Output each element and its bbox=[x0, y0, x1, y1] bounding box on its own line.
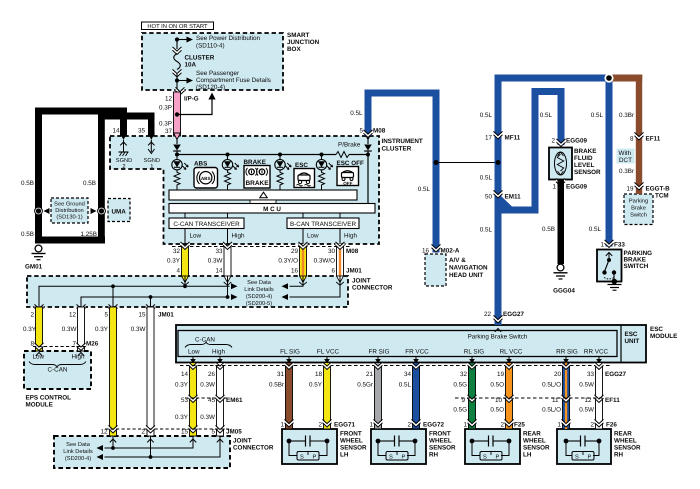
svg-text:30: 30 bbox=[328, 248, 336, 255]
svg-text:20: 20 bbox=[554, 371, 562, 378]
svg-text:(SD200-5): (SD200-5) bbox=[246, 300, 272, 307]
svg-text:10A: 10A bbox=[185, 62, 197, 69]
svg-text:P: P bbox=[402, 455, 406, 461]
svg-text:High: High bbox=[344, 233, 357, 240]
svg-text:0.3P: 0.3P bbox=[159, 121, 172, 128]
svg-text:1: 1 bbox=[552, 184, 556, 191]
svg-text:JUNCTION: JUNCTION bbox=[287, 39, 320, 46]
svg-text:EPS CONTROL: EPS CONTROL bbox=[26, 395, 72, 402]
svg-text:EGG09: EGG09 bbox=[566, 184, 587, 191]
JM01 internal C-CAN High bus bbox=[81, 276, 238, 307]
cluster pin 14 SGND2 bbox=[116, 133, 132, 170]
svg-text:0.5O: 0.5O bbox=[490, 382, 504, 389]
ESC warning LED bbox=[275, 155, 291, 191]
transceiver output stubs and Low/High labels bbox=[185, 229, 357, 245]
TCM parking brake switch box bbox=[624, 193, 669, 225]
JM01 internal B-CAN High branch bbox=[282, 276, 341, 300]
svg-text:INSTRUMENT: INSTRUMENT bbox=[382, 138, 423, 145]
svg-text:14: 14 bbox=[112, 128, 120, 135]
svg-text:Brake: Brake bbox=[631, 205, 646, 212]
junction node top right bbox=[604, 73, 613, 82]
svg-text:BOX: BOX bbox=[287, 46, 301, 53]
svg-text:0.3P: 0.3P bbox=[159, 105, 172, 112]
brake fluid level sensor box EGG09 bbox=[549, 148, 601, 180]
svg-text:0.5Y: 0.5Y bbox=[309, 382, 323, 389]
svg-text:See Data: See Data bbox=[247, 280, 272, 286]
BRAKE warning LED bbox=[222, 155, 238, 191]
svg-text:HOT IN ON OR START: HOT IN ON OR START bbox=[147, 23, 208, 30]
svg-text:34: 34 bbox=[404, 371, 412, 378]
svg-text:OFF: OFF bbox=[343, 181, 352, 186]
svg-text:P: P bbox=[496, 455, 500, 461]
svg-text:5: 5 bbox=[211, 429, 215, 436]
wire 0.3W/O B-CAN High cluster to JM01 pin 6 bbox=[314, 242, 345, 285]
svg-text:0.5B: 0.5B bbox=[542, 226, 555, 233]
svg-text:2: 2 bbox=[407, 422, 411, 429]
UMA connector box bbox=[108, 199, 130, 222]
svg-text:0.5L: 0.5L bbox=[480, 112, 493, 119]
ESC OFF indicator icon bbox=[337, 160, 364, 186]
svg-text:0.3W: 0.3W bbox=[200, 414, 215, 421]
svg-text:0.3Y: 0.3Y bbox=[95, 326, 109, 333]
wire 0.3W JM01 pin 15 to JM05 pin 2 bbox=[131, 304, 155, 442]
svg-text:GM01: GM01 bbox=[25, 264, 43, 271]
svg-text:12: 12 bbox=[165, 96, 173, 103]
svg-text:M26: M26 bbox=[86, 341, 99, 348]
svg-text:2: 2 bbox=[590, 422, 594, 429]
svg-text:EF11: EF11 bbox=[605, 397, 620, 404]
svg-text:BRAKE: BRAKE bbox=[245, 180, 269, 187]
svg-text:0.5L: 0.5L bbox=[589, 226, 602, 233]
svg-text:EGGT-B: EGGT-B bbox=[646, 186, 671, 193]
svg-text:SENSOR: SENSOR bbox=[429, 445, 456, 452]
svg-text:HEAD UNIT: HEAD UNIT bbox=[449, 272, 483, 279]
connector EGG27 dashed line under ESC unit bbox=[180, 366, 626, 379]
ESC unit pin name labels bbox=[280, 349, 608, 356]
svg-text:SENSOR: SENSOR bbox=[340, 445, 367, 452]
svg-text:MODULE: MODULE bbox=[26, 402, 53, 409]
connector EGG72 label bbox=[423, 422, 444, 429]
svg-text:CONNECTOR: CONNECTOR bbox=[352, 285, 393, 292]
svg-text:UMA: UMA bbox=[112, 209, 127, 216]
svg-text:M02-A: M02-A bbox=[441, 248, 460, 255]
svg-text:FR VCC: FR VCC bbox=[405, 349, 429, 356]
svg-text:ABS: ABS bbox=[194, 161, 207, 168]
front wheel sensor RH box bbox=[371, 429, 456, 464]
svg-text:12: 12 bbox=[69, 312, 77, 319]
instrument cluster label bbox=[382, 138, 423, 153]
svg-text:2: 2 bbox=[141, 429, 145, 436]
rear wheel sensor RH internals bbox=[564, 436, 602, 461]
svg-text:5: 5 bbox=[359, 128, 363, 135]
svg-text:Low: Low bbox=[188, 349, 200, 356]
with DCT note bbox=[617, 149, 635, 165]
ground GGG04 bbox=[553, 264, 575, 294]
svg-text:0.5B: 0.5B bbox=[21, 180, 34, 187]
svg-text:EF11: EF11 bbox=[646, 136, 661, 143]
svg-text:32: 32 bbox=[460, 371, 468, 378]
svg-text:19: 19 bbox=[626, 186, 634, 193]
connector JM01 top label bbox=[346, 268, 362, 275]
joint connector JM01 box bbox=[27, 276, 393, 307]
rear wheel sensor RH box bbox=[557, 429, 641, 464]
svg-text:21: 21 bbox=[366, 371, 374, 378]
svg-text:Parking Brake Switch: Parking Brake Switch bbox=[468, 334, 528, 341]
ground wire 0.5B/1.25B cluster pin 35 to GM01 bbox=[35, 113, 155, 244]
cluster pin 35 SGND1 bbox=[144, 133, 160, 170]
thin crossover link between M02-A branch and MF11 branch bbox=[436, 162, 498, 164]
svg-text:0.3W: 0.3W bbox=[62, 326, 77, 333]
svg-text:1: 1 bbox=[463, 422, 467, 429]
wire 0.5B brake fluid level sensor EGG09 pin 1 to ground bbox=[542, 178, 587, 264]
svg-text:S: S bbox=[389, 455, 393, 461]
svg-text:MF11: MF11 bbox=[505, 135, 521, 142]
svg-text:37: 37 bbox=[165, 128, 173, 135]
svg-text:B-CAN TRANSCEIVER: B-CAN TRANSCEIVER bbox=[290, 221, 356, 228]
front wheel sensor LH internals bbox=[287, 436, 330, 461]
wire 0.5L FR VCC to EGG72 pin 2 bbox=[399, 362, 421, 429]
joint connector JM05 box (data link) bbox=[54, 436, 274, 468]
svg-text:C-CAN TRANSCEIVER: C-CAN TRANSCEIVER bbox=[173, 221, 240, 228]
wire 0.5L vertical MF11/EM11 line to ESC pin 22 bbox=[480, 75, 525, 326]
wire 0.3Y ESC C-CAN Low to JM05 pin 15 via EM61 bbox=[175, 362, 197, 443]
wire 0.3Y C-CAN Low cluster to JM01 pin 4 bbox=[167, 242, 189, 285]
svg-text:31: 31 bbox=[277, 371, 285, 378]
rear wheel sensor LH internals bbox=[470, 436, 512, 461]
svg-text:1: 1 bbox=[150, 164, 153, 170]
svg-text:0.5B: 0.5B bbox=[21, 231, 34, 238]
wire 0.5Gr FR SIG to EGG72 pin 1 bbox=[357, 362, 382, 429]
svg-text:0.3W: 0.3W bbox=[131, 326, 146, 333]
svg-text:0.5W: 0.5W bbox=[579, 407, 594, 414]
A/V navigation head unit box bbox=[425, 254, 488, 286]
svg-text:6: 6 bbox=[331, 268, 335, 275]
svg-text:Parking: Parking bbox=[629, 198, 648, 205]
connector F26 label bbox=[606, 422, 617, 429]
svg-text:CLUSTER: CLUSTER bbox=[185, 55, 215, 62]
svg-text:FL VCC: FL VCC bbox=[317, 349, 340, 356]
svg-text:33: 33 bbox=[587, 371, 595, 378]
ground wire 0.5B cluster pin 14 to GM01 bbox=[21, 108, 127, 244]
connector EGG71 label bbox=[334, 422, 355, 429]
svg-text:High: High bbox=[232, 233, 245, 240]
svg-text:REAR: REAR bbox=[614, 431, 632, 438]
wire 0.5W RR VCC to F26 pin 2 via EF11 bbox=[579, 362, 603, 429]
svg-text:F25: F25 bbox=[514, 422, 525, 429]
svg-text:See Ground: See Ground bbox=[54, 201, 85, 208]
svg-text:JM05: JM05 bbox=[226, 429, 242, 436]
svg-text:Compartment Fuse Details: Compartment Fuse Details bbox=[196, 77, 271, 84]
svg-text:S: S bbox=[300, 455, 304, 461]
svg-text:0.5G: 0.5G bbox=[453, 407, 467, 414]
svg-text:C-CAN: C-CAN bbox=[195, 337, 215, 344]
svg-text:WHEEL: WHEEL bbox=[429, 438, 452, 445]
svg-text:1.25B: 1.25B bbox=[81, 231, 97, 238]
svg-text:SWITCH: SWITCH bbox=[624, 263, 649, 270]
svg-text:0.5L: 0.5L bbox=[540, 112, 553, 119]
svg-text:F33: F33 bbox=[614, 242, 625, 249]
see passenger compartment fuse details reference arrow bbox=[175, 70, 271, 91]
wire I/P-G 0.3P from SJB to cluster pin 37 bbox=[159, 87, 199, 136]
svg-text:5: 5 bbox=[104, 312, 108, 319]
wire 0.5Y FL VCC to EGG71 pin 2 bbox=[309, 362, 331, 429]
svg-text:0.3Br: 0.3Br bbox=[619, 112, 634, 119]
svg-text:FR SIG: FR SIG bbox=[369, 349, 390, 356]
svg-text:FL SIG: FL SIG bbox=[280, 349, 300, 356]
svg-text:EGG27: EGG27 bbox=[605, 371, 626, 378]
svg-text:26: 26 bbox=[208, 371, 216, 378]
svg-text:BRAKE: BRAKE bbox=[574, 148, 596, 155]
svg-text:1: 1 bbox=[600, 242, 604, 249]
svg-text:See Passenger: See Passenger bbox=[196, 70, 239, 77]
svg-text:(SD200-4): (SD200-4) bbox=[246, 293, 272, 300]
svg-text:TCM: TCM bbox=[655, 193, 669, 200]
C-CAN sub box inside ESC unit bbox=[185, 337, 232, 356]
svg-text:GGG04: GGG04 bbox=[553, 288, 575, 295]
MCU box bbox=[169, 200, 375, 213]
svg-text:0.3Br: 0.3Br bbox=[619, 168, 634, 175]
svg-text:1: 1 bbox=[369, 422, 373, 429]
svg-text:12: 12 bbox=[100, 429, 108, 436]
svg-text:Low: Low bbox=[190, 233, 202, 240]
connector M08 dashed line bbox=[172, 247, 359, 256]
diode at cluster pin 37 bbox=[173, 133, 181, 155]
svg-text:0.5L: 0.5L bbox=[480, 227, 493, 234]
svg-text:LH: LH bbox=[523, 452, 532, 459]
wire 0.5L cluster pin 5 riser bbox=[350, 90, 386, 138]
svg-text:FRONT: FRONT bbox=[340, 431, 362, 438]
connector M26 bbox=[33, 341, 99, 348]
svg-text:See Power Distribution: See Power Distribution bbox=[196, 35, 261, 42]
svg-text:EGG09: EGG09 bbox=[566, 138, 587, 145]
svg-text:0.5G: 0.5G bbox=[453, 382, 467, 389]
svg-text:0.3W: 0.3W bbox=[208, 258, 223, 265]
svg-text:0.5B: 0.5B bbox=[83, 180, 96, 187]
wire 0.5Br FL SIG to EGG71 pin 1 bbox=[269, 362, 294, 429]
svg-text:FRONT: FRONT bbox=[429, 431, 451, 438]
ground GM01 bbox=[25, 245, 46, 270]
JM01 data link reference text bbox=[244, 280, 274, 307]
svg-text:WHEEL: WHEEL bbox=[614, 438, 637, 445]
wire 0.3Y JM01 pin 2 to EPS pin 8 bbox=[23, 304, 43, 356]
svg-text:15: 15 bbox=[181, 429, 189, 436]
svg-text:0.5L: 0.5L bbox=[591, 112, 604, 119]
svg-text:0.3Y: 0.3Y bbox=[167, 258, 181, 265]
svg-text:0.5Br: 0.5Br bbox=[269, 382, 284, 389]
ESC indicator icon bbox=[294, 162, 315, 188]
svg-text:ABS: ABS bbox=[201, 176, 211, 181]
svg-text:(SD110-4): (SD110-4) bbox=[196, 43, 225, 50]
svg-text:RL SIG: RL SIG bbox=[464, 349, 485, 356]
svg-text:JM01: JM01 bbox=[158, 312, 174, 319]
svg-text:35: 35 bbox=[138, 128, 146, 135]
wire 0.3Y/O B-CAN Low cluster to JM01 pin 16 bbox=[278, 242, 307, 285]
hot in on or start label box bbox=[142, 22, 214, 30]
ESC module label bbox=[650, 326, 677, 340]
svg-text:S: S bbox=[483, 455, 487, 461]
svg-text:High: High bbox=[212, 349, 225, 356]
wire 0.3W C-CAN High cluster to JM01 pin 14 bbox=[208, 242, 232, 285]
svg-text:See Data: See Data bbox=[66, 442, 91, 448]
svg-text:F26: F26 bbox=[606, 422, 617, 429]
svg-text:0.3W/O: 0.3W/O bbox=[314, 258, 335, 265]
svg-text:RR VCC: RR VCC bbox=[584, 349, 609, 356]
svg-text:0.5L: 0.5L bbox=[399, 382, 412, 389]
front wheel sensor RH internals bbox=[376, 436, 418, 461]
svg-text:1: 1 bbox=[280, 422, 284, 429]
JM01 internal B-CAN Low branch bbox=[282, 276, 304, 289]
svg-text:JM01: JM01 bbox=[346, 268, 362, 275]
svg-text:17: 17 bbox=[485, 135, 493, 142]
svg-text:SENSOR: SENSOR bbox=[523, 445, 550, 452]
svg-text:UNIT: UNIT bbox=[625, 338, 640, 345]
svg-text:ESC: ESC bbox=[650, 326, 663, 333]
svg-text:16: 16 bbox=[291, 268, 299, 275]
svg-text:4: 4 bbox=[176, 268, 180, 275]
svg-text:0.5Gr: 0.5Gr bbox=[357, 382, 373, 389]
svg-text:(SD120-4): (SD120-4) bbox=[196, 84, 225, 91]
wire 0.5O RL VCC to F25 pin 2 via EF11 bbox=[490, 362, 513, 429]
bus junction nodes bbox=[175, 153, 370, 157]
svg-text:WHEEL: WHEEL bbox=[340, 438, 363, 445]
wire 0.3W JM01 pin 12 to EPS pin 7 bbox=[62, 304, 86, 356]
svg-text:S: S bbox=[575, 455, 579, 461]
ABS indicator icon bbox=[194, 161, 218, 189]
JM01 internal C-CAN Low bus bbox=[39, 276, 238, 307]
wire 0.5L branch from EM11 line over to brake fluid level sensor bbox=[498, 88, 587, 214]
svg-text:M C U: M C U bbox=[263, 206, 281, 213]
svg-text:0.5L/O: 0.5L/O bbox=[542, 382, 561, 389]
wire 0.5L/O RR SIG to F26 pin 1 via EF11 bbox=[542, 362, 570, 429]
svg-text:LEVEL: LEVEL bbox=[574, 162, 594, 169]
svg-text:16: 16 bbox=[422, 248, 430, 255]
svg-text:8: 8 bbox=[630, 136, 634, 143]
svg-text:I/P-G: I/P-G bbox=[184, 96, 199, 103]
JM05 internal Low bus bbox=[97, 436, 194, 451]
P/Brake net label and diode at cluster pin 5 bbox=[338, 133, 372, 155]
ESC unit box bbox=[176, 325, 646, 363]
C-CAN transceiver box bbox=[169, 213, 244, 229]
svg-text:CONNECTOR: CONNECTOR bbox=[233, 445, 274, 452]
smart junction box bbox=[142, 33, 283, 90]
svg-text:Switch: Switch bbox=[630, 212, 647, 219]
svg-text:C-CAN: C-CAN bbox=[48, 367, 68, 374]
svg-text:SENSOR: SENSOR bbox=[574, 169, 601, 176]
fuse CLUSTER 10A inside SJB bbox=[173, 40, 215, 91]
svg-text:EGG71: EGG71 bbox=[334, 422, 355, 429]
svg-text:0.3Y: 0.3Y bbox=[23, 326, 37, 333]
svg-text:EGG72: EGG72 bbox=[423, 422, 444, 429]
see ground distribution box bbox=[51, 198, 88, 223]
EPS control module box bbox=[24, 351, 91, 409]
svg-text:22: 22 bbox=[484, 311, 492, 318]
svg-text:CLUSTER: CLUSTER bbox=[382, 146, 412, 153]
svg-text:NAVIGATION: NAVIGATION bbox=[449, 265, 488, 272]
svg-text:RH: RH bbox=[614, 452, 624, 459]
cluster lamp supply bus with resistor bbox=[177, 152, 368, 158]
instrument cluster box bbox=[110, 136, 379, 244]
svg-text:0.5O: 0.5O bbox=[490, 407, 504, 414]
svg-text:0.3Y: 0.3Y bbox=[175, 414, 189, 421]
see power distribution reference arrow bbox=[175, 35, 261, 50]
connector EF11 dashed line (rear sensors) bbox=[455, 397, 620, 404]
svg-text:RR SIG: RR SIG bbox=[556, 349, 578, 356]
ABS warning LED bbox=[172, 155, 188, 191]
svg-text:19: 19 bbox=[497, 371, 505, 378]
P/Brake line to MCU bbox=[367, 155, 369, 204]
svg-text:50: 50 bbox=[485, 194, 493, 201]
ESC OFF warning LED bbox=[316, 155, 332, 191]
svg-text:2: 2 bbox=[500, 422, 504, 429]
svg-text:P/Brake: P/Brake bbox=[338, 142, 361, 149]
svg-text:Distribution: Distribution bbox=[55, 207, 83, 214]
svg-text:P: P bbox=[588, 455, 592, 461]
svg-text:With: With bbox=[619, 150, 632, 157]
svg-text:RL VCC: RL VCC bbox=[500, 349, 523, 356]
svg-text:29: 29 bbox=[291, 248, 299, 255]
svg-text:32: 32 bbox=[173, 248, 181, 255]
svg-text:M08: M08 bbox=[346, 248, 359, 255]
smart junction box label bbox=[287, 32, 320, 53]
wire 0.5L horizontal run to A/V head unit branch bbox=[365, 90, 440, 97]
wire 0.5G RL SIG to F25 pin 1 via EF11 bbox=[453, 362, 476, 429]
svg-text:0.5L: 0.5L bbox=[480, 175, 493, 182]
connector F25 label bbox=[514, 422, 525, 429]
svg-text:LH: LH bbox=[340, 452, 349, 459]
svg-text:Link Details: Link Details bbox=[244, 286, 274, 293]
svg-text:(SD130-1): (SD130-1) bbox=[56, 214, 82, 221]
svg-text:Low: Low bbox=[33, 354, 45, 361]
svg-text:0.5L: 0.5L bbox=[418, 186, 431, 193]
svg-text:14: 14 bbox=[215, 268, 223, 275]
connector node UMA on right ground wire bbox=[91, 207, 106, 215]
front wheel sensor LH box bbox=[282, 429, 367, 464]
svg-text:18: 18 bbox=[315, 371, 323, 378]
svg-text:MODULE: MODULE bbox=[650, 333, 677, 340]
svg-text:SMART: SMART bbox=[287, 32, 310, 39]
svg-text:ESC: ESC bbox=[625, 331, 638, 338]
svg-text:P: P bbox=[313, 455, 317, 461]
svg-text:2: 2 bbox=[318, 422, 322, 429]
svg-text:WHEEL: WHEEL bbox=[523, 438, 546, 445]
junction on 0.3P wire with off-page up arrow bbox=[175, 93, 216, 117]
svg-text:15: 15 bbox=[138, 312, 146, 319]
svg-text:EM61: EM61 bbox=[226, 397, 243, 404]
svg-text:0.3W: 0.3W bbox=[200, 382, 215, 389]
ESC unit internal output stubs with arrows bbox=[190, 357, 602, 364]
svg-text:0.5L/O: 0.5L/O bbox=[542, 407, 561, 414]
svg-text:FLUID: FLUID bbox=[574, 155, 593, 162]
svg-text:2: 2 bbox=[122, 164, 125, 170]
wire 0.3Y JM01 pin 5 to JM05 pin 12 bbox=[95, 304, 117, 442]
connector node on left ground wire bbox=[35, 207, 50, 215]
svg-text:DCT: DCT bbox=[619, 157, 632, 164]
svg-text:33: 33 bbox=[215, 248, 223, 255]
svg-text:Link Details: Link Details bbox=[63, 448, 93, 455]
svg-text:2: 2 bbox=[551, 138, 555, 145]
BRAKE indicator icon bbox=[244, 159, 271, 188]
svg-text:Low: Low bbox=[307, 233, 319, 240]
svg-text:A/V &: A/V & bbox=[449, 257, 466, 264]
svg-text:SENSOR: SENSOR bbox=[614, 445, 641, 452]
B-CAN transceiver box bbox=[287, 213, 359, 229]
svg-text:14: 14 bbox=[181, 371, 189, 378]
svg-text:M08: M08 bbox=[373, 128, 386, 135]
svg-text:JOINT: JOINT bbox=[233, 438, 252, 445]
MCU input box with triangle bbox=[169, 190, 357, 200]
svg-text:0.5L: 0.5L bbox=[350, 110, 363, 117]
svg-text:0.5W: 0.5W bbox=[579, 382, 594, 389]
